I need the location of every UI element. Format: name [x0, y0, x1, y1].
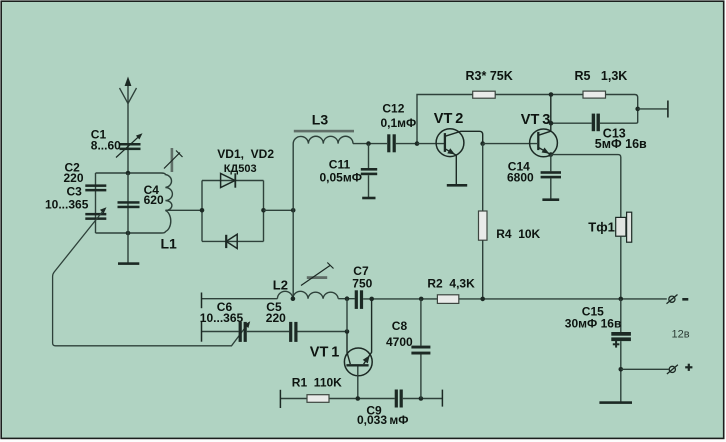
svg-text:10...365: 10...365	[45, 198, 89, 212]
svg-text:VT 2: VT 2	[434, 111, 464, 127]
svg-text:VD1, VD2: VD1, VD2	[217, 147, 274, 161]
svg-text:R3* 75K: R3* 75K	[466, 69, 513, 83]
svg-text:0,1мФ: 0,1мФ	[381, 116, 417, 130]
svg-text:C12: C12	[382, 101, 404, 115]
svg-text:L1: L1	[161, 235, 178, 251]
svg-text:R2 4,3K: R2 4,3K	[427, 277, 475, 291]
svg-text:C8: C8	[392, 319, 408, 333]
svg-text:30мФ 16в: 30мФ 16в	[565, 317, 622, 331]
svg-text:620: 620	[144, 193, 164, 207]
svg-text:12в: 12в	[672, 328, 690, 340]
svg-text:5мФ 16в: 5мФ 16в	[595, 137, 647, 151]
svg-text:C3: C3	[67, 185, 83, 199]
svg-text:R4 10K: R4 10K	[496, 227, 540, 241]
svg-text:C11: C11	[329, 157, 351, 171]
svg-text:VT 3: VT 3	[521, 112, 551, 128]
svg-text:КД503: КД503	[224, 163, 257, 175]
svg-text:L2: L2	[273, 278, 288, 293]
svg-text:VT 1: VT 1	[310, 345, 340, 361]
svg-text:750: 750	[352, 276, 372, 290]
svg-text:10...365: 10...365	[200, 311, 244, 325]
svg-text:4700: 4700	[386, 335, 413, 349]
svg-text:0,05мФ: 0,05мФ	[320, 171, 362, 185]
svg-text:220: 220	[266, 311, 286, 325]
svg-text:L3: L3	[312, 111, 329, 127]
svg-text:R1 110K: R1 110K	[292, 376, 342, 390]
svg-text:Тф1: Тф1	[588, 220, 615, 235]
svg-text:0,033 мФ: 0,033 мФ	[357, 413, 409, 427]
svg-text:220: 220	[64, 171, 84, 185]
svg-text:6800: 6800	[507, 171, 534, 185]
svg-text:8...60: 8...60	[91, 138, 121, 152]
svg-text:R5 1,3K: R5 1,3K	[575, 69, 628, 83]
